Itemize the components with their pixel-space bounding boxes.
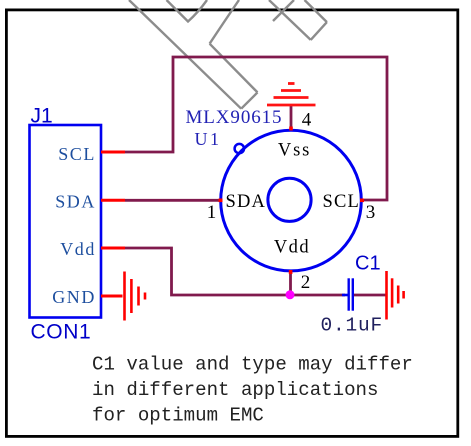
svg-text:U1: U1 bbox=[195, 129, 222, 149]
svg-text:C1: C1 bbox=[355, 253, 381, 275]
svg-text:for optimum EMC: for optimum EMC bbox=[92, 405, 264, 427]
wire U1 pin4 stub to earth bbox=[290, 104, 293, 130]
pin dot U1.3 bbox=[360, 199, 364, 203]
svg-text:3: 3 bbox=[366, 202, 376, 223]
pin stub J1.GND bbox=[101, 295, 123, 298]
wire C1 to ground bbox=[354, 294, 387, 297]
svg-text:Vdd: Vdd bbox=[274, 238, 310, 258]
svg-text:SCL: SCL bbox=[322, 192, 360, 212]
pin stub J1.Vdd bbox=[101, 247, 125, 250]
svg-text:Vss: Vss bbox=[278, 141, 311, 161]
svg-text:Vdd: Vdd bbox=[60, 239, 96, 259]
svg-text:C1 value and type may differ: C1 value and type may differ bbox=[92, 354, 413, 376]
pin stub J1.SCL bbox=[101, 151, 125, 154]
junction node Vdd/pin2 bbox=[286, 290, 295, 299]
sensor U1 tab bbox=[235, 144, 244, 153]
watermark stroke leg bbox=[210, 44, 258, 93]
watermark stroke stem-cap bbox=[241, 92, 257, 108]
svg-text:CON1: CON1 bbox=[31, 321, 92, 344]
svg-text:4: 4 bbox=[302, 110, 312, 131]
svg-text:MLX90615: MLX90615 bbox=[186, 107, 283, 128]
pin dot U1.2 bbox=[289, 270, 293, 274]
connector J1 body bbox=[30, 125, 102, 318]
earth ground at J1.GND (vertical bars) bbox=[125, 272, 146, 321]
wire SCL net: J1.SCL to U1.3 loop bbox=[125, 57, 387, 200]
watermark stroke stem-left bbox=[129, 0, 241, 109]
watermark stroke stripe2-left bbox=[269, 0, 311, 40]
svg-text:SDA: SDA bbox=[226, 192, 267, 212]
svg-text:0.1uF: 0.1uF bbox=[321, 315, 384, 337]
svg-text:J1: J1 bbox=[31, 105, 53, 128]
wire U1 pin2 stub bbox=[289, 271, 292, 295]
capacitor C1 left lead bbox=[342, 294, 348, 297]
earth ground at U1.Vss (horizontal bars) bbox=[267, 84, 316, 106]
pin stub J1.SDA bbox=[101, 199, 125, 202]
wire Vdd net: J1.Vdd to C1/U1.2 bbox=[125, 248, 345, 295]
sensor U1 can outline bbox=[221, 130, 362, 271]
svg-text:SCL: SCL bbox=[58, 144, 96, 164]
watermark stroke counter-v bbox=[167, 0, 208, 22]
svg-text:in different applications: in different applications bbox=[92, 379, 378, 401]
pin dot U1.4 bbox=[289, 127, 293, 131]
svg-text:1: 1 bbox=[207, 202, 217, 223]
sensor U1 lens bbox=[268, 178, 311, 221]
watermark stroke bowl-curve bbox=[210, 0, 239, 44]
wire SDA net: J1.SDA to U1.1 bbox=[125, 199, 220, 202]
svg-text:GND: GND bbox=[52, 287, 96, 307]
capacitor C1 plates bbox=[349, 278, 353, 310]
watermark stroke stripe2-cap bbox=[311, 22, 327, 40]
svg-text:SDA: SDA bbox=[55, 192, 96, 212]
earth ground at C1 (vertical bars) bbox=[387, 271, 404, 320]
pin dot U1.1 bbox=[219, 199, 223, 203]
watermark stroke stripe2-right bbox=[305, 0, 327, 22]
watermark stroke slash bbox=[273, 0, 294, 21]
svg-text:2: 2 bbox=[301, 272, 311, 293]
